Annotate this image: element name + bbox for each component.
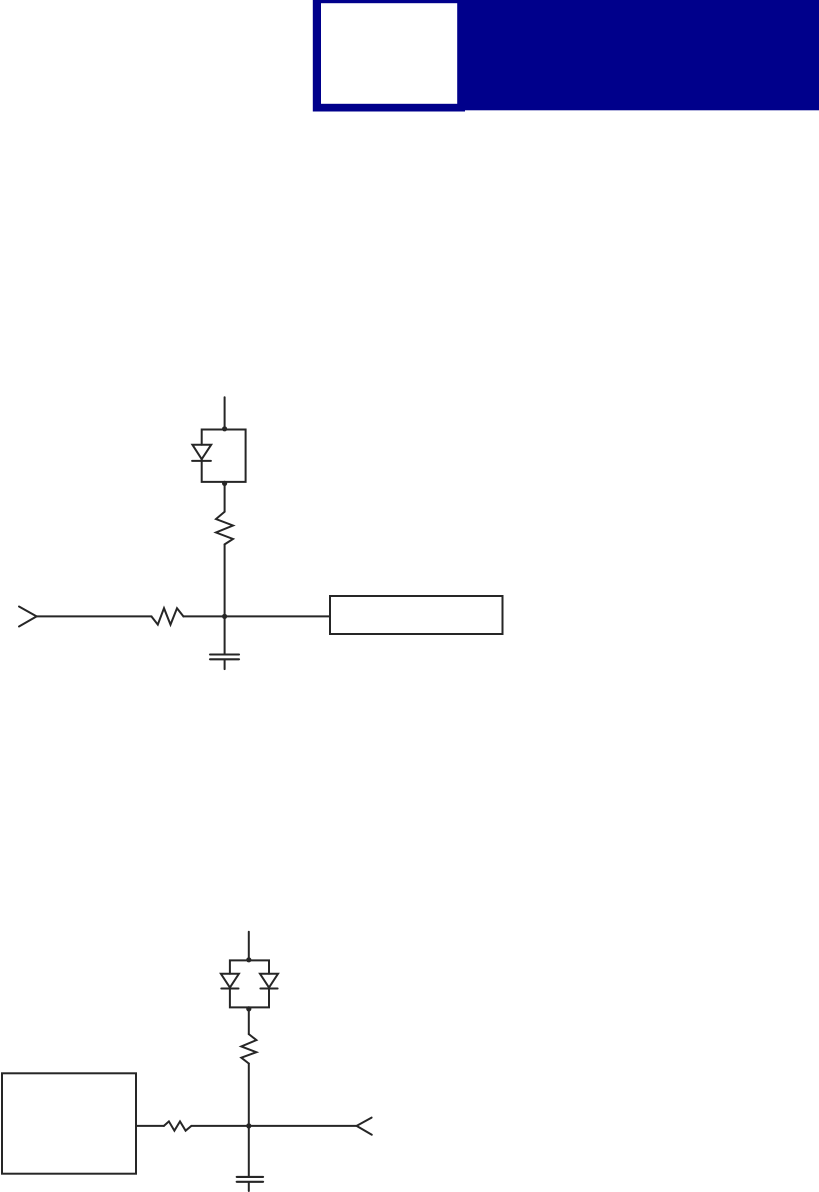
wire loop to resistor (224, 482, 226, 512)
logo frame (313, 0, 465, 112)
wire capacitor stub (224, 660, 226, 669)
capacitor C1 (210, 653, 239, 655)
resistor R3 (241, 1034, 256, 1063)
node junction 2 (246, 1123, 251, 1128)
node junction 1 (222, 614, 227, 619)
wire input to resistor (37, 615, 152, 617)
wire box to resistor (136, 1125, 164, 1127)
wire diode parallel loop (202, 430, 246, 482)
diode D1 (192, 445, 211, 460)
diode D2 left (221, 974, 239, 988)
resistor R4 (164, 1121, 192, 1130)
wire diode parallel loop (230, 960, 269, 1007)
wire top supply lead (248, 932, 250, 961)
box component block 1 (330, 596, 503, 634)
wire resistor to junction (224, 544, 226, 616)
wire resistor to junction (248, 1064, 250, 1126)
wire resistor to node (191, 1125, 356, 1127)
resistor R2 (151, 608, 183, 624)
resistor R1 (216, 512, 233, 545)
wire node to capacitor (224, 616, 226, 653)
wire resistor to node (183, 615, 330, 617)
wire node to capacitor (248, 1126, 250, 1176)
capacitor C2 (237, 1176, 263, 1178)
node top of diode loop (246, 957, 251, 962)
wire capacitor stub (248, 1183, 250, 1191)
box component block 2 (2, 1073, 136, 1173)
node top of diode loop (222, 426, 227, 431)
logo white box (321, 3, 457, 104)
diode D3 right (260, 974, 278, 988)
header banner (457, 0, 819, 110)
wire top supply lead (224, 397, 226, 429)
node bottom of diode loop (246, 1006, 251, 1011)
node bottom of diode loop (222, 481, 227, 486)
wire loop to resistor (248, 1007, 250, 1034)
terminal output arrow (357, 1118, 372, 1135)
terminal input arrow (19, 607, 37, 627)
